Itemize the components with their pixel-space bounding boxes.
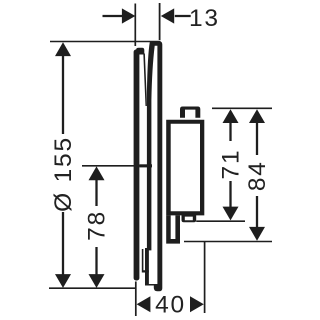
dimension 40 right arrowhead (190, 296, 204, 312)
dimension 71 down arrowhead (223, 207, 239, 221)
svg-text:84: 84 (244, 160, 271, 191)
dimension D155 down arrowhead (55, 274, 71, 288)
dimension 40 left arrowhead (137, 296, 151, 312)
dimension 13 right arrowhead (161, 8, 174, 23)
dimension 13 right extension line (159, 3, 161, 40)
handle bottom skirt edge (142, 249, 149, 273)
dimension 84 down arrowhead (249, 227, 265, 241)
dimension 84 bottom reference line (184, 241, 272, 243)
dimension 40 right extension line (204, 242, 206, 314)
svg-text:40: 40 (155, 292, 186, 319)
dimension 71 line upper segment (229, 123, 231, 142)
lower narrow box (166, 215, 180, 243)
svg-text:13: 13 (189, 5, 220, 32)
dimension 13 left line (103, 15, 125, 17)
svg-text:78: 78 (84, 210, 111, 241)
plate mid rung (140, 164, 153, 167)
dimension 78 line lower segment (95, 247, 97, 275)
handle rear taper edge (143, 54, 147, 107)
dimension 78 down arrowhead (89, 274, 105, 288)
svg-text:71: 71 (217, 149, 244, 180)
dimension 71 up arrowhead (223, 109, 239, 123)
handle top hook (136, 48, 144, 55)
dimension 84 line upper segment (256, 123, 258, 156)
plate outline (D155 escutcheon side view) (147, 41, 162, 291)
shared bottom reference line for D155 and 78 (49, 287, 136, 289)
dimension 13 left extension line (134, 4, 136, 47)
bottom stub (182, 214, 197, 222)
dimension 13 right line (175, 15, 191, 17)
dimension 71 and 84 top reference line (212, 107, 272, 109)
dimension D155 top reference line (50, 41, 161, 43)
handle front face bar (134, 50, 140, 281)
svg-text:Ø 155: Ø 155 (50, 136, 77, 212)
top stub (cartridge cap) (180, 107, 200, 118)
dimension D155 line upper segment (62, 55, 64, 134)
dimension 78 top reference line (82, 165, 146, 167)
dimension 71 line lower segment (229, 181, 231, 208)
dimension 13 left arrowhead (122, 8, 135, 23)
handle skirt bar (145, 248, 149, 286)
dimension D155 up arrowhead (55, 42, 71, 56)
dimension 78 line upper segment (95, 179, 97, 206)
dimension 84 up arrowhead (249, 109, 265, 123)
valve body outline (166, 120, 204, 216)
dimension D155 line lower segment (62, 212, 64, 275)
dimension 71 bottom reference line (196, 220, 245, 222)
dimension 84 line lower segment (256, 196, 258, 228)
dimension 78 up arrowhead (89, 166, 105, 180)
dimension 40 left extension line (135, 282, 137, 317)
